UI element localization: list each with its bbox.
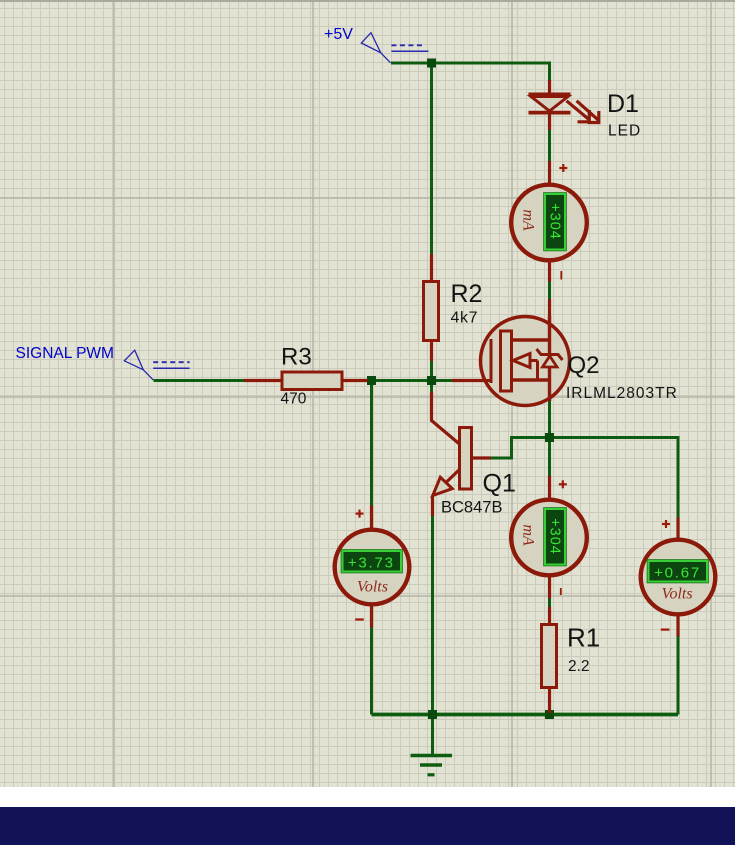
svg-text:IRLML2803TR: IRLML2803TR <box>566 385 678 402</box>
svg-text:Volts: Volts <box>357 579 388 596</box>
svg-text:R2: R2 <box>451 280 483 308</box>
svg-text:2.2: 2.2 <box>568 658 590 675</box>
svg-text:+5V: +5V <box>324 26 353 43</box>
svg-text:+0.67: +0.67 <box>654 565 701 582</box>
svg-text:+304: +304 <box>547 203 563 240</box>
svg-text:Volts: Volts <box>661 586 692 603</box>
svg-text:mA: mA <box>520 209 537 231</box>
svg-text:LED: LED <box>608 123 641 140</box>
svg-text:Q2: Q2 <box>568 352 600 379</box>
svg-text:BC847B: BC847B <box>441 499 502 517</box>
svg-text:mA: mA <box>520 524 537 546</box>
svg-text:+3.73: +3.73 <box>348 555 395 572</box>
svg-text:470: 470 <box>281 391 307 408</box>
svg-text:R1: R1 <box>567 623 600 653</box>
svg-text:SIGNAL PWM: SIGNAL PWM <box>16 345 114 362</box>
svg-text:4k7: 4k7 <box>451 310 479 327</box>
svg-text:D1: D1 <box>607 90 639 118</box>
svg-text:Q1: Q1 <box>483 470 516 498</box>
svg-text:+304: +304 <box>547 518 563 555</box>
svg-text:R3: R3 <box>281 344 312 371</box>
